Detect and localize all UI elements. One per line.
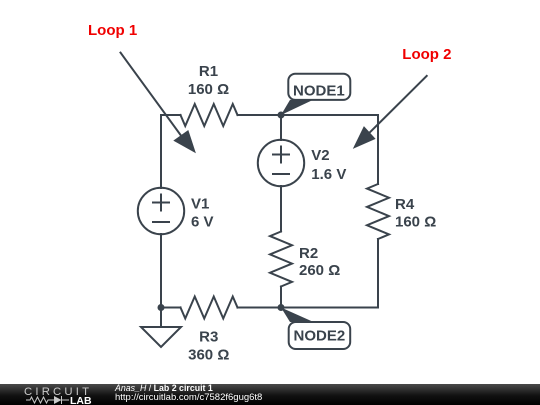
loop 2 arrowhead: [353, 126, 376, 149]
svg-text:R3: R3: [199, 328, 218, 345]
svg-text:160 Ω: 160 Ω: [188, 81, 229, 98]
wire bottom rail right: [238, 307, 379, 309]
voltage source V2: [258, 140, 304, 186]
wire middle branch mid: [280, 186, 282, 232]
node 2 junction dot: [278, 304, 285, 311]
voltage source V1: [138, 188, 184, 234]
wire bottom rail left: [161, 307, 181, 309]
footer bar: [0, 384, 540, 405]
svg-text:R2: R2: [299, 245, 318, 262]
ground junction dot: [158, 304, 165, 311]
svg-text:R4: R4: [395, 196, 415, 213]
wire left branch lower: [160, 234, 162, 308]
svg-text:NODE2: NODE2: [294, 328, 346, 345]
ground: [141, 308, 181, 348]
node 1 junction dot: [278, 112, 285, 119]
resistor R4: [367, 184, 389, 239]
svg-text:NODE1: NODE1: [293, 82, 345, 99]
wire right branch lower: [377, 239, 379, 308]
svg-text:Loop 2: Loop 2: [402, 46, 451, 63]
NODE2 label box: [289, 322, 351, 349]
loop 2 arrow line: [370, 76, 427, 133]
loop 1 arrowhead: [173, 130, 196, 153]
resistor R3: [181, 297, 238, 319]
NODE1 callout tail: [281, 100, 313, 115]
svg-text:360 Ω: 360 Ω: [188, 346, 229, 363]
NODE1 label box: [288, 74, 350, 100]
svg-text:R1: R1: [199, 63, 218, 80]
wire middle branch upper: [280, 115, 282, 140]
svg-text:6 V: 6 V: [191, 214, 214, 231]
svg-text:1.6 V: 1.6 V: [311, 166, 346, 183]
wire middle branch lower: [280, 287, 282, 308]
wire top rail right: [238, 114, 379, 116]
loop 1 arrow line: [121, 53, 181, 136]
svg-text:V1: V1: [191, 196, 209, 213]
svg-text:260 Ω: 260 Ω: [299, 262, 340, 279]
resistor R1: [181, 104, 238, 126]
svg-text:LAB: LAB: [70, 395, 92, 405]
NODE2 callout tail: [281, 308, 314, 323]
svg-text:160 Ω: 160 Ω: [395, 213, 436, 230]
resistor R2: [270, 232, 292, 287]
svg-text:Loop 1: Loop 1: [88, 22, 137, 39]
footer logo schematic: [26, 396, 69, 404]
wire top rail left: [161, 114, 181, 116]
footer logo diode: [54, 396, 62, 404]
svg-text:http://circuitlab.com/c7582f6g: http://circuitlab.com/c7582f6gug6t8: [115, 392, 262, 403]
wire right branch upper: [377, 115, 379, 184]
svg-text:V2: V2: [311, 147, 329, 164]
wire left branch upper: [160, 115, 162, 188]
